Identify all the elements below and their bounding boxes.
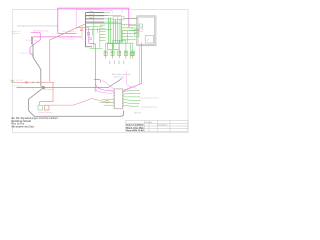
MF vertical pair from rahmen (magenta) bbox=[123, 43, 141, 91]
sheet frame border bbox=[13, 10, 188, 133]
pink wire from comb down to IC bundle bbox=[126, 71, 136, 89]
green wires into gray box bbox=[129, 25, 139, 30]
svg-text:Schaltplan: Schaltplan bbox=[158, 123, 168, 126]
svg-text:PIN 8 Signal re: PIN 8 Signal re bbox=[62, 38, 76, 41]
small pink part in gray box bbox=[139, 29, 142, 32]
component pair K1 (green/red) bbox=[38, 105, 43, 110]
pink inner frame bbox=[76, 9, 100, 27]
gray stub near bus bbox=[81, 29, 83, 41]
svg-text:Signal sw: Signal sw bbox=[12, 33, 22, 35]
pink diag to IC top bbox=[102, 80, 114, 89]
green enclosure bottom rail bbox=[90, 47, 103, 49]
green cross wires right with pins bbox=[122, 25, 140, 40]
sheet background bbox=[0, 0, 200, 141]
small component left (red/green) bbox=[80, 29, 83, 31]
svg-text:PLUS Kabel: PLUS Kabel bbox=[20, 53, 35, 55]
svg-text:Die Schaltpläne sind nach best: Die Schaltpläne sind nach bestem Wissen … bbox=[17, 24, 58, 27]
green wires right of IC bbox=[123, 90, 140, 106]
pink diag to IC pin2 bbox=[97, 91, 115, 94]
green small component left of rahmen bbox=[130, 52, 133, 55]
gray frame box (Rahmen) bbox=[137, 16, 156, 46]
green vertical into comb area bbox=[130, 44, 132, 52]
wire A end ticks bbox=[71, 36, 80, 37]
green coil arches bbox=[113, 40, 126, 43]
IC connector X1 bbox=[114, 89, 123, 109]
gray ghost symbols under comb bbox=[110, 61, 124, 64]
gray inner box bbox=[145, 36, 153, 43]
green comb rail bbox=[106, 42, 134, 44]
svg-text:Relais Zündung: Relais Zündung bbox=[39, 112, 52, 114]
MF vertical pair pink bbox=[122, 45, 140, 92]
green top links bbox=[94, 13, 122, 23]
comb red marks bbox=[105, 52, 134, 54]
gray shield path (big) bbox=[29, 44, 124, 116]
connector bars (black wires) bbox=[86, 13, 104, 23]
title block text bbox=[126, 124, 144, 132]
svg-text:Norm 450a 12.4.8: Norm 450a 12.4.8 bbox=[126, 129, 144, 132]
magenta drop from connector bbox=[89, 28, 96, 90]
pin tick red J2 bbox=[31, 36, 32, 38]
gray label box bbox=[113, 17, 124, 20]
gray corner above knot bbox=[94, 80, 101, 83]
small green parts in gray box bbox=[139, 24, 142, 27]
green bus vertical cluster bbox=[108, 18, 121, 44]
green component small 2 bbox=[89, 37, 91, 39]
svg-text:PIN 30 Plus: PIN 30 Plus bbox=[26, 40, 37, 42]
comb red pin ticks bbox=[106, 56, 133, 59]
svg-text:Bearb. Gepr. Wgn: Bearb. Gepr. Wgn bbox=[126, 126, 144, 129]
svg-text:Abschirmung: Abschirmung bbox=[44, 88, 54, 91]
red relay wire to IC bbox=[49, 99, 105, 106]
red pin ticks right cluster bbox=[124, 24, 133, 40]
green side verticals bbox=[122, 30, 130, 59]
red long plus line bbox=[14, 81, 54, 83]
wire red plus diag upper bbox=[50, 24, 85, 82]
title block small texts bbox=[145, 121, 167, 127]
comb component drops bbox=[106, 43, 133, 51]
svg-text:MF 450: MF 450 bbox=[134, 112, 141, 114]
comb components row bbox=[104, 51, 134, 56]
svg-text:Datum 1.5.04 Nam: Datum 1.5.04 Nam bbox=[126, 124, 144, 127]
green stubs left of bus bbox=[100, 25, 105, 40]
green box T1 bbox=[108, 44, 113, 50]
green wires left of IC bbox=[99, 100, 114, 106]
pink inner corner bbox=[100, 9, 122, 12]
red circle node bbox=[106, 100, 109, 103]
IC pin marks left bbox=[113, 93, 115, 107]
component K2 bbox=[44, 105, 49, 110]
magenta curve into IC bbox=[96, 84, 115, 92]
red ticks left stubs bbox=[99, 25, 101, 41]
magenta horizontal into connector bbox=[76, 27, 89, 29]
green ticks on plus line bbox=[32, 82, 39, 84]
green ticks on plus line bbox=[26, 82, 28, 84]
svg-text:Lautsprecher vorn: Lautsprecher vorn bbox=[141, 96, 158, 99]
left frame connector marks bbox=[11, 80, 14, 82]
green component small bbox=[87, 32, 89, 35]
svg-text:Steckers neu: Steckers neu bbox=[114, 76, 124, 79]
green box T2 bbox=[114, 44, 119, 50]
bar left bus (dark) bbox=[86, 13, 92, 47]
green verticals near connector bottom bbox=[93, 28, 100, 48]
svg-text:Masse: Masse bbox=[90, 18, 95, 20]
green wire end ticks bbox=[138, 90, 140, 107]
svg-text:Masse: Masse bbox=[90, 14, 95, 16]
connector J2 (small dark bar) bbox=[31, 37, 32, 44]
junction dot bbox=[42, 86, 44, 88]
IC pin marks right bbox=[122, 93, 124, 107]
magenta frame rect (outer lila box) bbox=[58, 8, 129, 33]
green component 2 bbox=[135, 34, 139, 37]
svg-text:Grundig: Grundig bbox=[145, 121, 152, 124]
gray frame box inner ring bbox=[138, 17, 154, 44]
magenta arrow end bbox=[95, 89, 97, 91]
green enclosure left edge bbox=[93, 12, 95, 48]
left frame connector red bbox=[11, 80, 13, 82]
gray antenna line bbox=[124, 17, 137, 19]
svg-text:Alle anderen sind Grün: Alle anderen sind Grün bbox=[11, 126, 35, 129]
wire MF signal A (magenta horizontal) bbox=[33, 36, 81, 38]
green components mid right bbox=[135, 29, 139, 32]
red tick in gray box bbox=[147, 39, 149, 40]
title block table bbox=[126, 120, 188, 131]
gray shield branch right bbox=[16, 78, 122, 87]
green cross wires left bbox=[86, 23, 122, 29]
red drop to relay bbox=[40, 82, 53, 105]
svg-text:Masse: Masse bbox=[90, 11, 95, 13]
svg-text:Lautsprecher hint.: Lautsprecher hint. bbox=[141, 105, 157, 108]
wire MF signal B (magenta) bbox=[30, 32, 40, 56]
red into IC bbox=[109, 101, 114, 103]
